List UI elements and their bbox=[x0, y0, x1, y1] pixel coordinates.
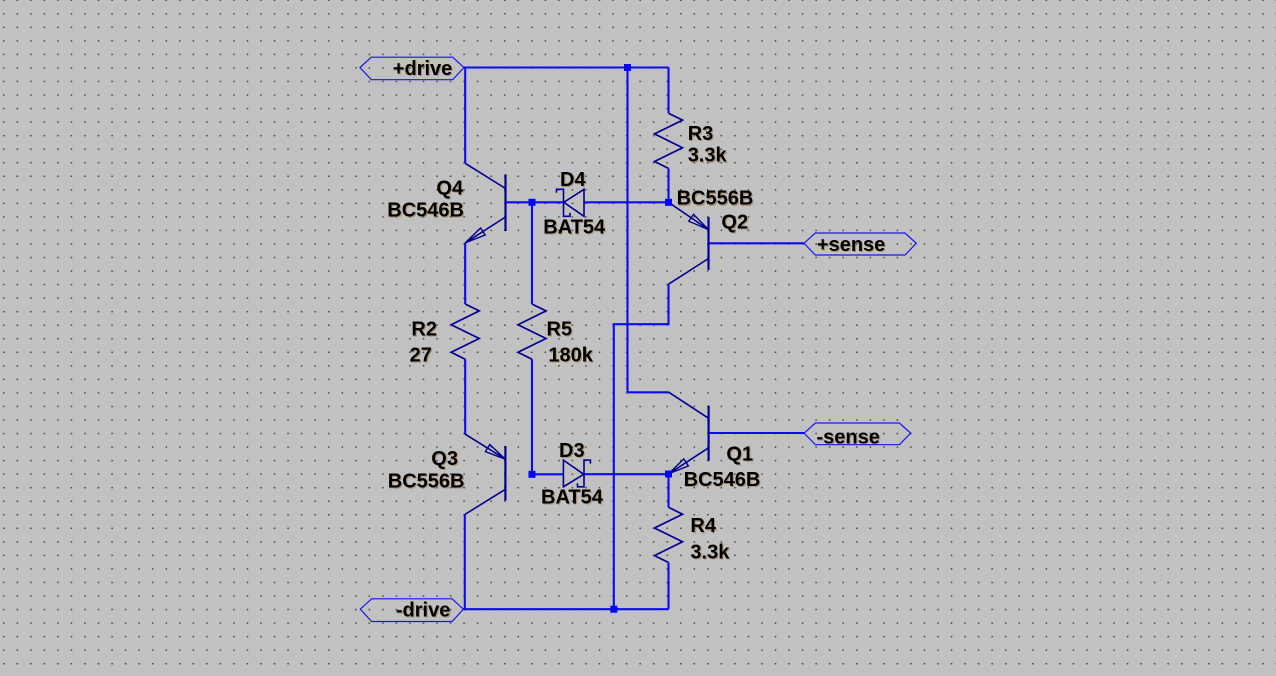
svg-text:3.3k: 3.3k bbox=[690, 542, 730, 564]
junction at +drive rail / V1 bbox=[624, 64, 631, 71]
svg-text:BC556B: BC556B bbox=[388, 471, 465, 493]
diode D4 (BAT54 schottky, pointing left) bbox=[557, 189, 585, 216]
svg-text:BC546B: BC546B bbox=[387, 199, 464, 221]
svg-text:Q2: Q2 bbox=[721, 211, 748, 233]
svg-text:+drive: +drive bbox=[393, 58, 452, 80]
svg-text:BAT54: BAT54 bbox=[541, 487, 604, 509]
wire Q4 base lead bbox=[506, 201, 533, 203]
resistor R3 bbox=[655, 113, 683, 168]
svg-text:27: 27 bbox=[410, 344, 432, 366]
resistor R2 bbox=[451, 304, 479, 359]
wire bottom rail (-drive net) bbox=[463, 608, 668, 610]
flag +sense bbox=[804, 233, 916, 256]
svg-text:180k: 180k bbox=[548, 344, 593, 366]
transistor Q4 (NPN BC546B, mirrored) bbox=[465, 163, 505, 243]
wire Q3 collector vertical bbox=[464, 515, 466, 610]
junction D3 left / R5 / Q3 base bbox=[529, 471, 536, 478]
wire R4 top lead bbox=[667, 474, 669, 507]
wire D4 right segment to R3 junction bbox=[584, 201, 669, 203]
svg-text:-sense: -sense bbox=[817, 427, 880, 449]
junction D4 left / R5 / Q4 base bbox=[529, 199, 536, 206]
resistor R4 bbox=[655, 507, 683, 562]
svg-text:D4: D4 bbox=[560, 169, 586, 191]
flag +drive bbox=[360, 57, 464, 80]
svg-text:Q4: Q4 bbox=[436, 178, 464, 200]
transistor Q2 (PNP BC556B) bbox=[669, 202, 709, 284]
svg-text:BC546B: BC546B bbox=[684, 469, 761, 491]
wire V1 vertical from +drive junction down to Q1 collector row bbox=[626, 68, 628, 393]
transistor Q1 (NPN BC546B) bbox=[669, 392, 709, 474]
svg-text:BAT54: BAT54 bbox=[543, 216, 606, 238]
wire R4 bottom lead bbox=[667, 563, 669, 610]
wire top rail (+drive net) bbox=[464, 66, 669, 68]
wire Q1 base to -sense bbox=[709, 432, 804, 434]
flag -sense bbox=[804, 423, 911, 449]
junction D3 right / R4 / Q1 emitter bbox=[665, 471, 672, 478]
wire Q4 collector vertical bbox=[464, 68, 466, 164]
wire D4 anode-left segment bbox=[532, 201, 564, 203]
wire R3 top lead bbox=[667, 68, 669, 114]
wire R2 bottom lead to Q3 emitter bbox=[464, 359, 466, 434]
svg-text:R3: R3 bbox=[688, 123, 714, 145]
svg-text:D3: D3 bbox=[559, 440, 585, 462]
wire Q2 collector path down to -drive rail bbox=[614, 284, 669, 609]
wire Q2 base to +sense bbox=[709, 242, 805, 244]
wire Q4 emitter vertical to R2 bbox=[464, 243, 466, 304]
junction D4 right / R3 / Q2 emitter bbox=[665, 199, 672, 206]
wire R3 bottom lead bbox=[667, 168, 669, 202]
junction -drive rail / Q2 collector path bbox=[610, 606, 617, 613]
svg-text:3.3k: 3.3k bbox=[688, 145, 728, 167]
wire Q1 collector horizontal bbox=[628, 391, 669, 393]
wire R5 bottom lead bbox=[531, 359, 533, 474]
svg-text:+sense: +sense bbox=[817, 234, 885, 256]
svg-text:R2: R2 bbox=[411, 318, 437, 340]
flag -drive bbox=[360, 599, 463, 622]
wire R5 top lead bbox=[531, 202, 533, 304]
svg-text:Q1: Q1 bbox=[726, 443, 753, 465]
wire D3 right segment to R4 junction bbox=[584, 473, 669, 475]
svg-text:R4: R4 bbox=[690, 515, 716, 537]
svg-text:Q3: Q3 bbox=[431, 448, 458, 470]
svg-text:R5: R5 bbox=[547, 318, 573, 340]
diode D3 (BAT54 schottky, pointing right) bbox=[563, 460, 590, 487]
svg-text:-drive: -drive bbox=[396, 600, 450, 622]
svg-text:BC556B: BC556B bbox=[677, 188, 754, 210]
wire D3 left segment bbox=[532, 473, 563, 475]
resistor R5 bbox=[518, 304, 546, 359]
transistor Q3 (PNP BC556B, mirrored) bbox=[465, 434, 506, 515]
